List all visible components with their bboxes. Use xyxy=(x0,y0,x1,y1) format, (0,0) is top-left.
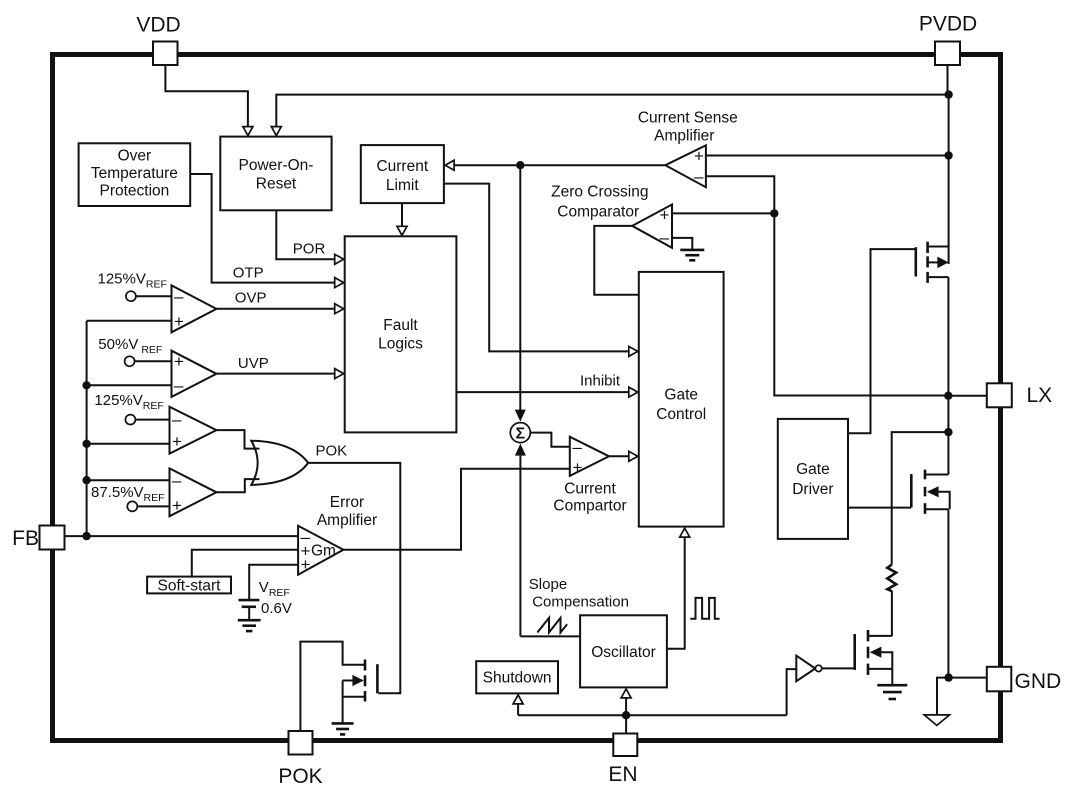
arrow into Gate Control (pwm) xyxy=(629,451,638,461)
wire LX node down to low-side drain xyxy=(947,432,949,474)
amplifier Current Sense xyxy=(665,145,706,187)
node bus to UVP minus xyxy=(82,381,90,389)
arrow into Shutdown bottom xyxy=(513,695,523,704)
wire POK net OR output to pull-down gate xyxy=(308,463,400,693)
svg-text:Soft-start: Soft-start xyxy=(158,577,222,594)
svg-text:+: + xyxy=(301,555,311,574)
svg-text:Temperature: Temperature xyxy=(91,165,178,182)
svg-text:Error: Error xyxy=(330,494,364,511)
svg-text:OVP: OVP xyxy=(235,289,267,306)
svg-text:GND: GND xyxy=(1015,670,1062,693)
arrow UVP into Fault Logics xyxy=(335,369,344,379)
wire Inhibit Fault Logics to Gate Control xyxy=(456,391,631,393)
wire EN pin riser xyxy=(625,697,627,734)
svg-text:0.6V: 0.6V xyxy=(261,600,292,617)
transistor low-side FET xyxy=(910,474,913,507)
comparator POK lower xyxy=(170,468,217,516)
svg-text:+: + xyxy=(660,206,670,225)
wire Current Limit down to Fault Logics xyxy=(401,203,403,228)
terminal circle 87.5%VREF (POK lower) xyxy=(127,501,137,511)
wire inverter output to pulldown gate xyxy=(822,667,855,669)
arrow into sigma top (filled) xyxy=(515,410,526,422)
svg-text:VDD: VDD xyxy=(136,14,180,37)
pin VDD xyxy=(153,42,178,66)
svg-text:PVDD: PVDD xyxy=(919,13,977,36)
svg-text:–: – xyxy=(694,167,704,186)
svg-text:LX: LX xyxy=(1027,384,1053,407)
svg-text:Compensation: Compensation xyxy=(532,594,629,611)
svg-text:+: + xyxy=(172,432,182,451)
arrow clock into Gate Control bottom xyxy=(680,528,690,537)
wire slope compensation up into sigma xyxy=(519,456,521,637)
sawtooth symbol xyxy=(537,618,567,633)
box Gate Driver xyxy=(778,419,848,539)
wire POK comparator upper to OR gate xyxy=(216,430,259,449)
svg-text:–: – xyxy=(174,287,184,306)
comparator Zero Crossing xyxy=(632,205,672,248)
wire VREF to error amplifier xyxy=(249,565,298,600)
svg-text:Reset: Reset xyxy=(256,176,297,193)
resistor R1 xyxy=(887,565,896,592)
ground below VREF xyxy=(238,619,261,622)
wire EN to inverter input xyxy=(787,669,797,715)
svg-text:Current: Current xyxy=(376,158,428,175)
arrow Inhibit into Gate Control xyxy=(629,387,638,397)
comparator POK upper xyxy=(170,407,217,454)
box Soft-start xyxy=(147,577,231,594)
pin EN xyxy=(613,734,637,757)
svg-text:FB: FB xyxy=(12,527,39,550)
wire CSA minus input to LX sense xyxy=(706,176,949,395)
transistor pulldown NMOS (anti-shoot-through) xyxy=(853,634,856,670)
OR gate POK xyxy=(251,441,308,485)
box Shutdown xyxy=(476,661,558,693)
comparator UVP xyxy=(172,351,217,397)
arrow into sigma bottom (filled) xyxy=(515,444,526,456)
svg-text:Power-On-: Power-On- xyxy=(239,157,314,174)
box Power-On-Reset U_POR xyxy=(220,137,331,211)
wire current comparator to Gate Control xyxy=(609,455,631,457)
svg-text:Logics: Logics xyxy=(378,336,423,353)
node GND junction xyxy=(944,673,952,681)
svg-text:Compartor: Compartor xyxy=(553,498,626,515)
transistor low-side FET gate wire xyxy=(848,507,911,509)
svg-text:Control: Control xyxy=(656,406,706,423)
arrow into Fault Logics top xyxy=(397,226,407,235)
wire OVP to Fault Logics xyxy=(216,308,337,310)
svg-text:Current: Current xyxy=(564,481,616,498)
svg-text:Driver: Driver xyxy=(792,481,833,498)
wire ZC plus input xyxy=(672,212,774,214)
svg-text:UVP: UVP xyxy=(238,355,269,372)
pin POK xyxy=(289,731,313,755)
wire resistor to pulldown drain xyxy=(891,591,893,636)
box Gate Control xyxy=(639,272,724,527)
comparator Current Compartor xyxy=(570,437,609,476)
node PVDD rail CSA plus xyxy=(944,151,952,159)
squarewave symbol xyxy=(690,598,719,619)
svg-text:Gate: Gate xyxy=(796,461,830,478)
summing node sigma xyxy=(510,423,530,443)
inverter U2 xyxy=(796,656,815,682)
node PVDD rail top wire xyxy=(944,90,952,98)
svg-text:Over: Over xyxy=(118,148,152,165)
wire pulldown source to ground xyxy=(891,669,893,685)
svg-text:Amplifier: Amplifier xyxy=(654,128,714,145)
ground at POK NMOS xyxy=(332,722,354,725)
FB sense bus xyxy=(86,321,88,536)
wire low-side source to GND xyxy=(947,509,949,677)
node bus to POK lower minus xyxy=(82,476,90,484)
comparator OVP xyxy=(172,285,217,332)
chip outline border xyxy=(53,55,1001,741)
wire Current Limit to Gate Control xyxy=(444,184,631,352)
svg-text:+: + xyxy=(174,312,184,331)
svg-text:Protection: Protection xyxy=(100,183,170,200)
node resistor branch xyxy=(944,428,952,436)
node EN junction xyxy=(622,711,630,719)
wire ZC output to Gate Control xyxy=(594,226,639,295)
pin PVDD xyxy=(935,42,960,66)
wire EN to Shutdown xyxy=(517,702,519,715)
svg-text:Σ: Σ xyxy=(515,426,525,443)
wire oscillator slope comp output xyxy=(520,635,580,637)
wire to LX pin xyxy=(948,395,987,397)
terminal circle 125%VREF (POK upper) xyxy=(125,415,135,425)
wire CSA plus input to PVDD rail xyxy=(706,155,949,157)
svg-text:–: – xyxy=(172,471,182,490)
arrow into Oscillator bottom xyxy=(621,689,631,698)
svg-text:–: – xyxy=(174,376,184,395)
node bus to POK upper plus xyxy=(82,440,90,448)
transistor high-side FET xyxy=(914,247,917,276)
svg-text:+: + xyxy=(573,458,583,477)
arrow current limit into Gate Control xyxy=(629,346,638,356)
arrow into POR top right xyxy=(271,127,281,136)
ground at ZC minus xyxy=(680,249,704,252)
wire current limit level down into sigma xyxy=(519,166,521,411)
node sigma tap on CSA output xyxy=(516,161,524,169)
wire PVDD pin rail xyxy=(948,65,949,264)
terminal circle 125%VREF (OVP) xyxy=(126,291,136,301)
svg-text:Current Sense: Current Sense xyxy=(638,110,738,127)
svg-text:Oscillator: Oscillator xyxy=(591,644,656,661)
box Current Limit xyxy=(361,145,444,203)
error amplifier Gm xyxy=(298,526,343,575)
svg-text:Gm: Gm xyxy=(311,543,336,560)
box Oscillator xyxy=(580,615,667,687)
wire VDD to Power-On-Reset xyxy=(165,65,248,128)
svg-text:–: – xyxy=(573,438,583,457)
svg-text:+: + xyxy=(174,352,184,371)
node ZC tap xyxy=(770,209,778,217)
pin LX xyxy=(987,383,1012,407)
wire high-side source to LX xyxy=(947,277,949,432)
svg-text:Shutdown: Shutdown xyxy=(483,670,552,687)
svg-text:–: – xyxy=(172,410,182,429)
arrow OTP into Fault Logics xyxy=(335,278,344,288)
wire UVP to Fault Logics xyxy=(216,373,337,375)
wire CSA output to Current Limit xyxy=(452,164,665,166)
wire error amplifier output xyxy=(343,469,569,550)
svg-text:POR: POR xyxy=(293,240,326,257)
wire sigma output to current comparator minus xyxy=(530,433,570,447)
svg-text:Amplifier: Amplifier xyxy=(317,512,377,529)
wire OTP box to Fault Logics xyxy=(190,174,337,283)
wire PVDD rail to Power-On-Reset xyxy=(276,95,948,128)
wire EN bus xyxy=(518,714,787,716)
svg-text:EN: EN xyxy=(608,763,637,786)
box Fault Logics xyxy=(345,236,457,432)
pin GND xyxy=(987,667,1012,692)
wire branch to gate resistor xyxy=(892,432,949,565)
wire POK comparator lower to OR gate xyxy=(216,479,259,492)
svg-text:Limit: Limit xyxy=(386,177,419,194)
ground arrow (open) xyxy=(924,715,949,726)
node FB junction xyxy=(82,532,90,540)
svg-text:Inhibit: Inhibit xyxy=(580,373,621,390)
svg-text:–: – xyxy=(660,228,670,247)
box Over Temperature Protection xyxy=(79,143,191,206)
terminal circle 50%VREF (UVP) xyxy=(125,356,135,366)
wire oscillator clock to Gate Control xyxy=(667,536,685,649)
wire Soft-start to error amplifier xyxy=(192,550,298,577)
node LX junction xyxy=(944,392,952,400)
svg-text:POK: POK xyxy=(316,443,348,460)
svg-text:Gate: Gate xyxy=(664,387,698,404)
svg-text:+: + xyxy=(694,147,704,166)
svg-text:POK: POK xyxy=(278,765,322,788)
pin FB xyxy=(40,526,65,550)
arrow OVP into Fault Logics xyxy=(335,304,344,314)
wire ZC minus to ground xyxy=(672,238,692,250)
arrow into Current Limit right edge xyxy=(445,160,454,170)
svg-text:+: + xyxy=(172,496,182,515)
wire POR to Fault Logics xyxy=(276,210,337,259)
transistor high-side FET gate riser xyxy=(848,249,916,433)
arrow POR into Fault Logics xyxy=(335,254,344,264)
ground at pulldown NMOS xyxy=(877,684,907,687)
svg-text:OTP: OTP xyxy=(233,265,264,282)
battery VREF 0.6V xyxy=(239,599,260,602)
transistor POK open-drain NMOS xyxy=(300,642,365,731)
svg-text:Slope: Slope xyxy=(529,576,567,593)
wire FB pin to error amplifier xyxy=(65,535,299,537)
wire to GND pin xyxy=(949,677,987,679)
svg-text:Comparator: Comparator xyxy=(557,204,639,221)
svg-text:Fault: Fault xyxy=(383,317,418,334)
svg-text:Zero Crossing: Zero Crossing xyxy=(551,184,648,201)
wire to ground arrow xyxy=(937,678,949,715)
arrow into POR top left xyxy=(243,127,253,136)
